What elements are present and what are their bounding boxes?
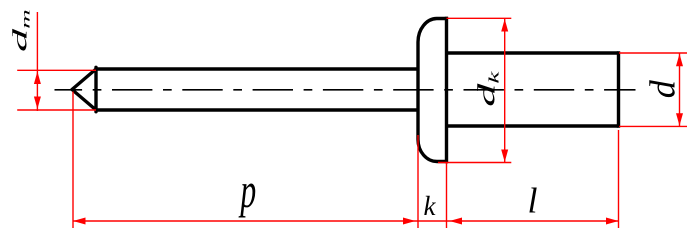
svg-text:dm: dm [9, 9, 33, 52]
svg-text:dk: dk [473, 71, 501, 107]
extension line p left (from cone apex) [72, 92, 74, 229]
dimension dm line [36, 12, 38, 111]
rivet head (dome) [418, 19, 448, 162]
dimension dm extension bottom [17, 109, 96, 111]
dimension d line [679, 53, 681, 126]
dimension dm extension top [17, 69, 96, 71]
extension line k right (head face) [446, 163, 448, 229]
svg-text:l: l [528, 181, 538, 221]
l arrow left [450, 218, 463, 225]
dimension d extension bottom [619, 125, 687, 127]
bottom dimension line p k l [73, 220, 619, 222]
body top edge [448, 51, 619, 54]
body right end [617, 51, 620, 127]
d arrow up [676, 54, 683, 66]
dm arrow up [34, 72, 41, 85]
svg-text:k: k [424, 191, 437, 221]
mandrel rod bottom edge [96, 108, 418, 111]
dk arrow down [501, 150, 508, 163]
l arrow right [606, 218, 619, 225]
p arrow right [403, 218, 416, 225]
p arrow left [73, 218, 86, 225]
extension line k left (dome left) [417, 135, 419, 228]
center line (dash-dot axis) [55, 89, 636, 91]
d arrow down [676, 113, 683, 126]
dimension dk extension bottom [438, 162, 511, 164]
rivet head right face [445, 17, 448, 163]
mandrel cone tip [72, 67, 96, 111]
dimension dk extension top [447, 17, 512, 19]
body bottom edge [448, 124, 619, 127]
dm arrow down [34, 97, 41, 110]
mandrel rod top edge [96, 67, 418, 70]
dk arrow up [501, 19, 508, 32]
dimension d extension top [619, 52, 687, 54]
svg-text:p: p [238, 164, 256, 219]
dimension dk line [504, 18, 506, 162]
extension line l right (body end) [618, 130, 620, 228]
svg-text:d: d [643, 79, 683, 98]
